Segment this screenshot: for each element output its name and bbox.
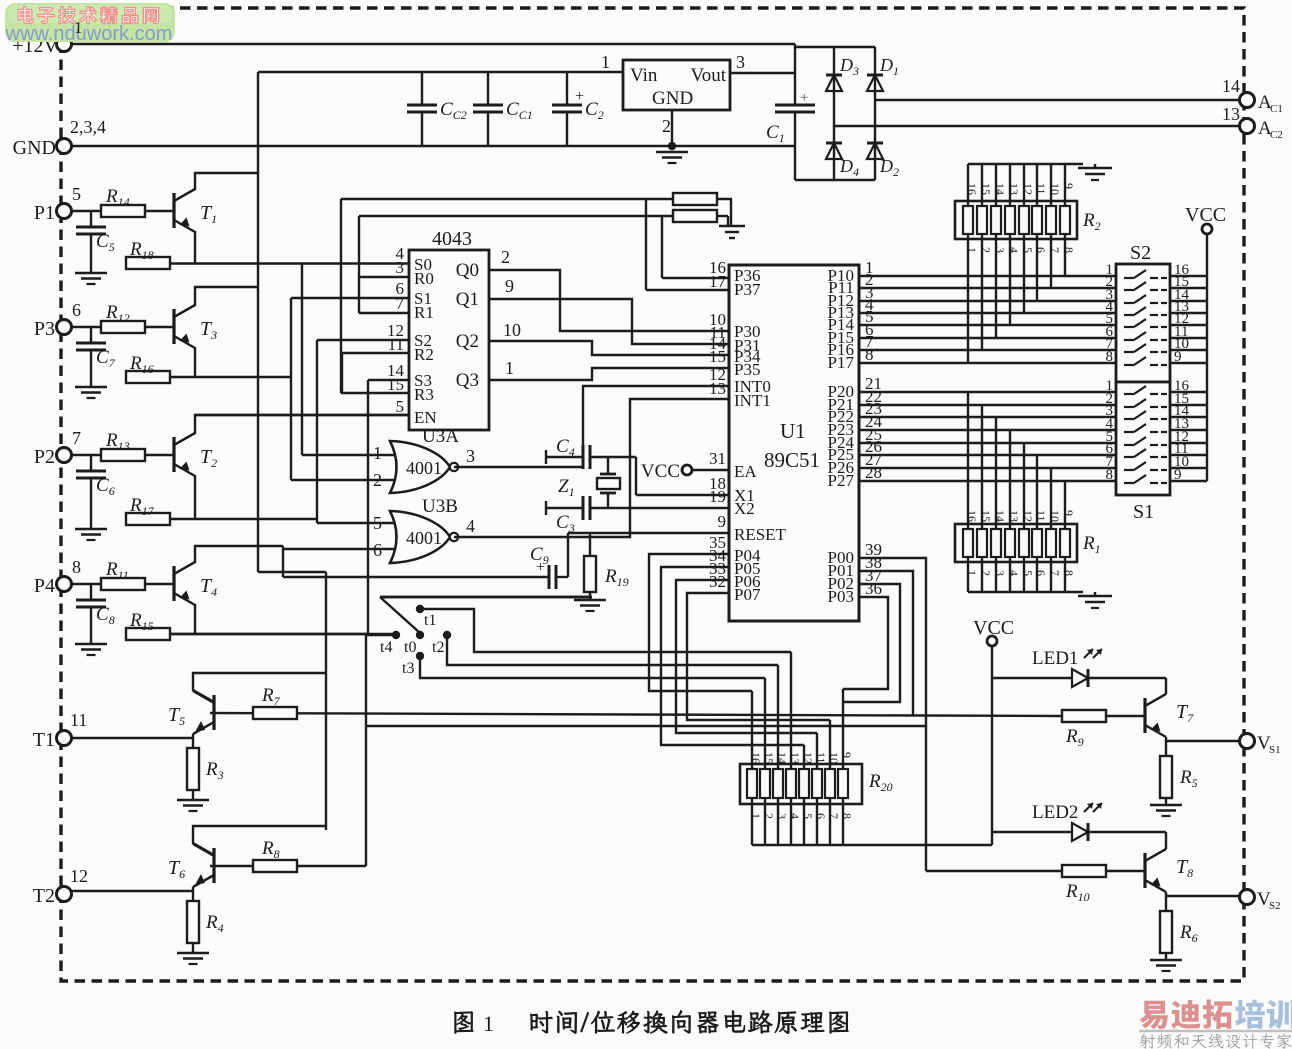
svg-text:13: 13 (709, 379, 726, 398)
svg-text:19: 19 (709, 487, 726, 506)
svg-text:Q0: Q0 (456, 260, 479, 281)
svg-text:15: 15 (709, 347, 726, 366)
svg-text:6: 6 (72, 300, 81, 320)
svg-text:4001: 4001 (406, 458, 442, 478)
svg-text:16: 16 (965, 183, 979, 195)
svg-text:3: 3 (993, 247, 1007, 253)
svg-text:36: 36 (865, 579, 882, 598)
svg-text:T1: T1 (33, 729, 55, 751)
svg-text:U3B: U3B (422, 496, 458, 517)
svg-text:13: 13 (1222, 104, 1240, 124)
svg-text:11: 11 (1034, 510, 1048, 522)
svg-text:P03: P03 (828, 587, 854, 606)
svg-text:16: 16 (965, 510, 979, 522)
svg-text:1: 1 (373, 443, 382, 463)
svg-text:Q3: Q3 (456, 370, 479, 391)
svg-text:89C51: 89C51 (764, 448, 820, 472)
svg-text:15: 15 (762, 752, 776, 764)
svg-text:11: 11 (388, 335, 404, 354)
svg-text:5: 5 (1021, 570, 1035, 576)
svg-text:C1: C1 (1270, 103, 1283, 115)
svg-text:11: 11 (1034, 183, 1048, 195)
svg-text:9: 9 (718, 512, 727, 531)
svg-text:C2: C2 (1270, 129, 1283, 141)
svg-text:7: 7 (1048, 570, 1062, 576)
svg-text:15: 15 (979, 510, 993, 522)
svg-text:Q2: Q2 (456, 331, 479, 352)
svg-text:1: 1 (601, 52, 610, 72)
svg-text:U3A: U3A (422, 426, 459, 447)
svg-text:1: 1 (965, 247, 979, 253)
svg-text:1: 1 (505, 358, 514, 378)
svg-text:9: 9 (840, 752, 854, 758)
svg-text:Q1: Q1 (456, 289, 479, 310)
svg-text:S1: S1 (1133, 501, 1154, 523)
svg-text:1: 1 (749, 813, 763, 819)
svg-text:12: 12 (1021, 183, 1035, 195)
svg-text:P17: P17 (828, 353, 855, 372)
svg-text:10: 10 (827, 752, 841, 764)
svg-text:2: 2 (979, 247, 993, 253)
svg-text:5: 5 (72, 184, 81, 204)
svg-text:11: 11 (814, 752, 828, 764)
svg-text:4: 4 (1007, 247, 1021, 253)
svg-text:EA: EA (734, 462, 757, 481)
svg-text:t2: t2 (432, 639, 444, 656)
svg-text:3: 3 (736, 52, 745, 72)
svg-text:8: 8 (865, 345, 874, 364)
svg-text:4: 4 (788, 813, 802, 819)
svg-text:10: 10 (1048, 510, 1062, 522)
svg-text:X2: X2 (734, 499, 755, 518)
svg-text:12: 12 (801, 752, 815, 764)
svg-text:7: 7 (827, 813, 841, 819)
svg-text:8: 8 (840, 813, 854, 819)
svg-text:LED2: LED2 (1032, 802, 1078, 823)
svg-text:14: 14 (775, 752, 789, 764)
svg-text:6: 6 (1034, 247, 1048, 253)
svg-text:GND: GND (652, 88, 693, 109)
svg-text:P1: P1 (34, 202, 55, 224)
svg-text:1: 1 (965, 570, 979, 576)
svg-text:LED1: LED1 (1032, 648, 1078, 669)
svg-text:11: 11 (70, 710, 87, 730)
svg-text:R2: R2 (414, 345, 434, 364)
svg-text:9: 9 (1062, 183, 1076, 189)
svg-text:2,3,4: 2,3,4 (70, 117, 106, 137)
svg-text:S1: S1 (1269, 744, 1281, 756)
svg-text:INT1: INT1 (734, 391, 771, 410)
svg-text:5: 5 (801, 813, 815, 819)
svg-text:8: 8 (1062, 247, 1076, 253)
svg-text:8: 8 (1106, 467, 1114, 483)
svg-text:13: 13 (1007, 510, 1021, 522)
svg-text:4: 4 (1007, 570, 1021, 576)
svg-text:R0: R0 (414, 269, 434, 288)
svg-text:P4: P4 (34, 575, 55, 597)
svg-text:31: 31 (709, 449, 726, 468)
svg-text:t0: t0 (404, 639, 416, 656)
svg-text:12: 12 (70, 866, 88, 886)
svg-text:10: 10 (503, 320, 521, 340)
svg-text:P07: P07 (734, 585, 761, 604)
svg-text:S2: S2 (1269, 900, 1281, 912)
svg-text:P2: P2 (34, 446, 55, 468)
svg-text:RESET: RESET (734, 525, 787, 544)
svg-text:6: 6 (1034, 570, 1048, 576)
svg-text:R1: R1 (414, 303, 434, 322)
svg-text:GND: GND (13, 137, 56, 159)
svg-text:t3: t3 (402, 660, 414, 677)
svg-text:Vin: Vin (630, 65, 658, 86)
svg-text:14: 14 (993, 510, 1007, 522)
svg-text:R3: R3 (414, 385, 434, 404)
svg-text:P3: P3 (34, 318, 55, 340)
svg-text:Vout: Vout (690, 65, 726, 86)
svg-text:8: 8 (1106, 349, 1114, 365)
svg-text:1: 1 (74, 18, 83, 37)
svg-text:15: 15 (387, 375, 404, 394)
svg-text:7: 7 (72, 428, 81, 448)
svg-text:P27: P27 (828, 471, 855, 490)
svg-text:3: 3 (993, 570, 1007, 576)
svg-text:2: 2 (979, 570, 993, 576)
svg-text:U1: U1 (780, 419, 806, 443)
svg-text:32: 32 (709, 572, 726, 591)
svg-text:13: 13 (788, 752, 802, 764)
svg-text:4001: 4001 (406, 528, 442, 548)
svg-text:10: 10 (1048, 183, 1062, 195)
svg-text:www.nduwork.com: www.nduwork.com (5, 23, 173, 45)
svg-text:S2: S2 (1130, 242, 1151, 264)
svg-text:17: 17 (709, 272, 727, 291)
svg-text:t4: t4 (380, 639, 392, 656)
svg-text:12: 12 (1021, 510, 1035, 522)
svg-text:9: 9 (1062, 510, 1076, 516)
svg-text:3: 3 (466, 446, 475, 466)
svg-text:16: 16 (749, 752, 763, 764)
svg-text:+: + (800, 90, 808, 106)
svg-text:5: 5 (1021, 247, 1035, 253)
svg-text:9: 9 (505, 276, 514, 296)
svg-text:+: + (575, 88, 584, 105)
svg-text:7: 7 (1048, 247, 1062, 253)
svg-text:15: 15 (979, 183, 993, 195)
svg-text:1: 1 (483, 1011, 494, 1036)
svg-text:EN: EN (414, 408, 437, 427)
svg-text:T2: T2 (33, 885, 55, 907)
svg-text:5: 5 (396, 397, 405, 416)
svg-text:8: 8 (72, 557, 81, 577)
svg-text:2: 2 (501, 247, 510, 267)
svg-text:8: 8 (1062, 570, 1076, 576)
svg-text:3: 3 (396, 258, 405, 277)
svg-text:3: 3 (775, 813, 789, 819)
svg-text:2: 2 (662, 116, 671, 136)
svg-text:7: 7 (396, 294, 405, 313)
svg-text:P37: P37 (734, 280, 761, 299)
svg-text:28: 28 (865, 463, 882, 482)
svg-text:14: 14 (993, 183, 1007, 195)
svg-text:13: 13 (1007, 183, 1021, 195)
svg-text:4043: 4043 (432, 228, 472, 250)
svg-text:t1: t1 (424, 612, 436, 629)
svg-text:VCC: VCC (641, 461, 680, 482)
svg-text:VCC: VCC (1185, 204, 1226, 226)
svg-text:6: 6 (814, 813, 828, 819)
svg-text:14: 14 (1222, 76, 1240, 96)
svg-text:4: 4 (466, 516, 475, 536)
svg-text:2: 2 (762, 813, 776, 819)
